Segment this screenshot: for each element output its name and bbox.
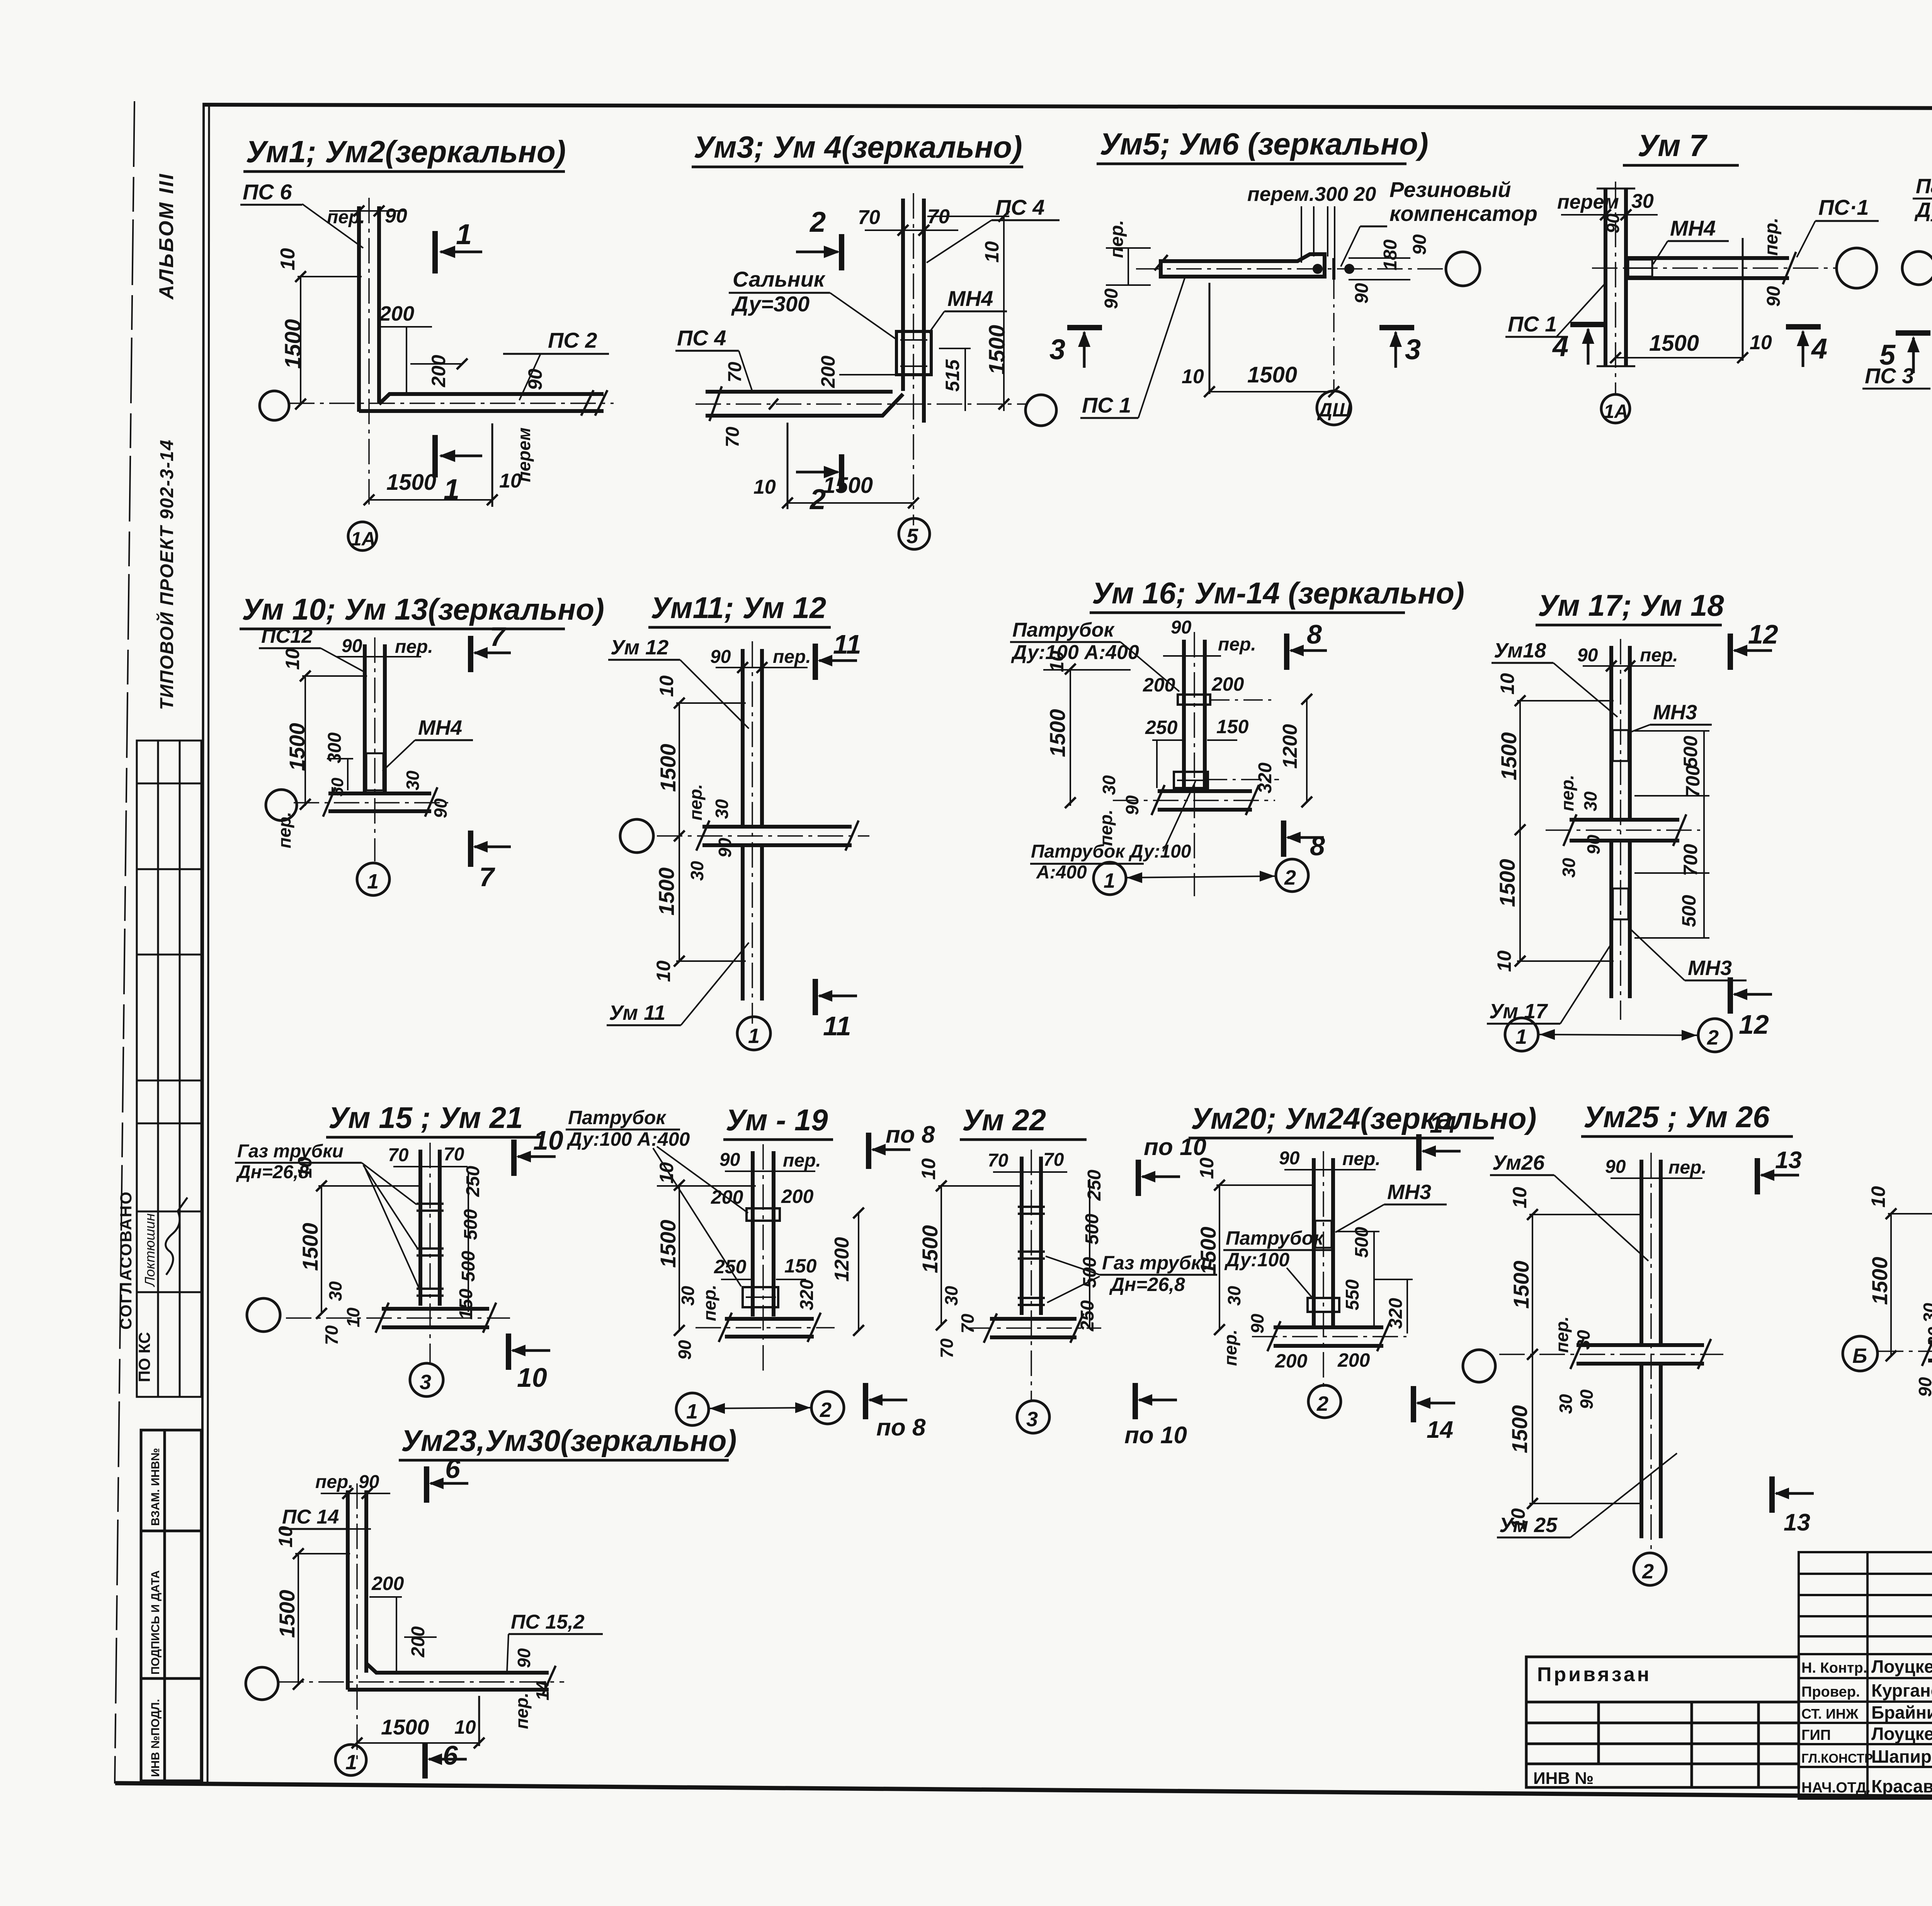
- svg-text:500: 500: [1678, 895, 1700, 927]
- wall centerline vertical: [1194, 632, 1195, 896]
- wall vertical lower: [1639, 1365, 1643, 1538]
- tick line right: [492, 423, 493, 507]
- svg-text:Лоуцкер: Лоуцкер: [1871, 1724, 1932, 1744]
- frame top line: [202, 105, 1932, 109]
- svg-text:Ду:100 А:400: Ду:100 А:400: [566, 1128, 690, 1150]
- wall centerline vertical: [1620, 639, 1621, 1020]
- section mark 12 bottom: [1728, 977, 1733, 1014]
- svg-text:90: 90: [1410, 234, 1430, 255]
- wall horizontal: [328, 792, 431, 795]
- dim 10 1500 left: [679, 1185, 680, 1330]
- dim 10 1500 left: [1070, 669, 1071, 806]
- wall centerline vertical: [356, 1483, 358, 1762]
- svg-text:1500: 1500: [1867, 1257, 1892, 1305]
- wall centerline: [1136, 268, 1444, 270]
- patrubok box: [1308, 1298, 1339, 1312]
- svg-text:МН4: МН4: [418, 716, 462, 739]
- svg-text:200: 200: [817, 355, 839, 388]
- signatures table: [1799, 1552, 1932, 1799]
- svg-text:2: 2: [1316, 1392, 1328, 1415]
- dim 1500 10 bottom: [369, 499, 492, 501]
- svg-text:70: 70: [388, 1145, 409, 1165]
- wall horizontal: [1577, 1343, 1704, 1347]
- svg-text:250: 250: [463, 1166, 483, 1197]
- svg-text:Дн=26,8: Дн=26,8: [1109, 1274, 1185, 1295]
- axis circle left: [260, 391, 289, 420]
- section mark 13 bottom: [1769, 1476, 1775, 1513]
- svg-text:90: 90: [430, 798, 451, 818]
- svg-text:А:400: А:400: [1036, 862, 1087, 883]
- svg-text:90: 90: [719, 1150, 740, 1170]
- svg-text:пер.: пер.: [1218, 634, 1256, 655]
- wall vertical: [901, 199, 905, 391]
- svg-text:90: 90: [710, 647, 731, 667]
- wall vertical: [418, 1150, 422, 1306]
- svg-text:Ум 12: Ум 12: [611, 636, 668, 659]
- wall centerline horizontal: [657, 835, 869, 837]
- wall centerline horizontal: [289, 403, 614, 404]
- svg-text:30: 30: [1631, 190, 1654, 212]
- svg-text:АЛЬБОМ III: АЛЬБОМ III: [155, 173, 178, 300]
- dim 10 1500 left: [1219, 1184, 1220, 1330]
- svg-text:пер.: пер.: [783, 1150, 821, 1171]
- wall centerline: [762, 1144, 764, 1375]
- wall centerline horizontal: [1878, 1351, 1932, 1352]
- svg-text:90: 90: [1577, 1389, 1597, 1409]
- svg-text:Патрубок: Патрубок: [1012, 619, 1115, 641]
- svg-text:14: 14: [1427, 1417, 1453, 1443]
- section mark 6 bottom: [422, 1742, 428, 1779]
- svg-text:90: 90: [1583, 834, 1604, 854]
- svg-text:70: 70: [321, 1325, 342, 1345]
- svg-text:1200: 1200: [1279, 724, 1301, 769]
- svg-text:Резиновый: Резиновый: [1389, 177, 1511, 202]
- gas tube ticks: [1018, 1206, 1045, 1208]
- svg-text:Ум 25: Ум 25: [1499, 1514, 1558, 1537]
- section mark 7 top: [468, 636, 473, 672]
- svg-text:ПС 2: ПС 2: [548, 328, 597, 352]
- svg-text:10: 10: [277, 248, 299, 270]
- svg-text:150: 150: [456, 1289, 476, 1320]
- svg-text:90: 90: [1603, 213, 1623, 233]
- axis circle 1: [1094, 862, 1126, 895]
- svg-text:10: 10: [282, 648, 303, 670]
- axis circle right: [1446, 252, 1480, 286]
- axis circle 2: [1698, 1019, 1731, 1052]
- svg-text:4: 4: [1811, 333, 1827, 365]
- axis circle left: [246, 1667, 278, 1700]
- axis circle 1: [1505, 1018, 1538, 1051]
- svg-text:30: 30: [1580, 791, 1600, 811]
- svg-text:500: 500: [458, 1251, 479, 1282]
- svg-text:2: 2: [1642, 1560, 1654, 1583]
- svg-text:30: 30: [325, 1281, 345, 1301]
- axis circle right: [1837, 248, 1877, 288]
- svg-text:Газ трубки: Газ трубки: [237, 1141, 344, 1162]
- svg-text:1500: 1500: [918, 1225, 942, 1273]
- MN4 hatch: [1628, 260, 1652, 277]
- wall centerline: [1031, 1150, 1032, 1401]
- section mark 5 left: [1896, 330, 1930, 336]
- axis circle 1: [335, 1745, 366, 1775]
- svg-text:ПС 1: ПС 1: [1082, 393, 1131, 417]
- wall centerline: [1323, 1151, 1324, 1391]
- wall centerline vertical: [429, 1143, 431, 1364]
- svg-text:Патрубок: Патрубок: [1916, 175, 1932, 198]
- svg-text:МН3: МН3: [1688, 956, 1732, 980]
- svg-text:ПС12: ПС12: [261, 625, 313, 647]
- svg-text:320: 320: [797, 1279, 817, 1310]
- svg-text:пер.: пер.: [773, 647, 811, 667]
- svg-text:90: 90: [1279, 1148, 1300, 1169]
- section mark 14 bottom: [1411, 1386, 1416, 1422]
- axis circle left: [1463, 1350, 1495, 1382]
- wall horizontal: [379, 394, 604, 404]
- dim 10 1500 bottom: [787, 502, 913, 504]
- svg-text:Патрубок: Патрубок: [568, 1107, 667, 1128]
- svg-text:5: 5: [906, 525, 918, 548]
- section mark 7 bottom: [468, 831, 473, 867]
- svg-text:90: 90: [1101, 288, 1122, 309]
- section mark po8 top: [866, 1133, 871, 1169]
- section mark 10 bottom: [506, 1334, 511, 1370]
- svg-text:90: 90: [1247, 1313, 1267, 1334]
- axis circle 3: [410, 1363, 443, 1396]
- svg-text:8: 8: [1307, 619, 1322, 649]
- axis circle 2: [811, 1391, 844, 1424]
- wall centerline horizontal: [1113, 800, 1275, 801]
- svg-text:30: 30: [1224, 1286, 1244, 1306]
- svg-text:500: 500: [461, 1209, 481, 1240]
- wall vertical: [357, 206, 361, 412]
- tick line left: [787, 423, 789, 509]
- section mark po10 top: [1136, 1160, 1141, 1196]
- axis circle 2: [1634, 1553, 1666, 1585]
- axis circle B: [1843, 1336, 1878, 1371]
- svg-text:1200: 1200: [831, 1237, 853, 1282]
- svg-text:200: 200: [1337, 1349, 1370, 1371]
- svg-text:Ду:100 А:400: Ду:100 А:400: [1011, 641, 1139, 664]
- wall horizontal: [725, 1317, 814, 1321]
- svg-text:90: 90: [342, 636, 362, 656]
- svg-text:Курганова: Курганова: [1871, 1680, 1932, 1700]
- svg-text:70: 70: [723, 426, 743, 447]
- wall centerline horizontal: [294, 802, 448, 804]
- svg-text:СОГЛАСОВАНО: СОГЛАСОВАНО: [117, 1191, 135, 1330]
- svg-text:пер.: пер.: [1761, 217, 1782, 256]
- section mark 4 right: [1786, 324, 1821, 330]
- svg-text:пер.: пер.: [1096, 809, 1116, 846]
- section mark 4 left: [1570, 322, 1605, 327]
- wall horizontal: [1626, 256, 1789, 260]
- svg-text:30: 30: [1920, 1303, 1932, 1323]
- svg-text:70: 70: [957, 1313, 978, 1334]
- svg-text:пер.: пер.: [1557, 775, 1577, 811]
- svg-text:70: 70: [725, 362, 745, 382]
- axis circle left: [1902, 251, 1932, 285]
- svg-text:Ум18: Ум18: [1494, 639, 1546, 662]
- svg-text:14: 14: [1430, 1111, 1456, 1138]
- svg-text:2: 2: [809, 206, 826, 238]
- svg-text:Б: Б: [1852, 1344, 1867, 1367]
- svg-text:30: 30: [1559, 858, 1579, 878]
- svg-text:1500: 1500: [281, 319, 306, 369]
- svg-text:Провер.: Провер.: [1801, 1684, 1860, 1700]
- svg-text:ПС·1: ПС·1: [1818, 195, 1869, 219]
- svg-text:1500: 1500: [1649, 331, 1699, 356]
- wall vertical: [1182, 640, 1186, 788]
- svg-text:1500: 1500: [386, 470, 436, 495]
- wall centerline vertical: [374, 637, 376, 861]
- wall centerline horizontal: [1592, 267, 1836, 269]
- svg-text:14: 14: [532, 1681, 553, 1700]
- svg-text:Локтюшин: Локтюшин: [142, 1213, 158, 1287]
- svg-text:90: 90: [385, 205, 407, 227]
- svg-text:ИНВ №ПОДЛ.: ИНВ №ПОДЛ.: [149, 1699, 162, 1777]
- svg-text:90: 90: [1171, 617, 1192, 638]
- svg-text:перем.300 20: перем.300 20: [1247, 183, 1376, 206]
- wall centerline horizontal: [966, 1327, 1101, 1329]
- svg-text:200: 200: [781, 1186, 814, 1207]
- svg-text:Ум 22: Ум 22: [962, 1103, 1046, 1137]
- svg-text:10: 10: [656, 675, 677, 697]
- svg-text:ПС 6: ПС 6: [243, 180, 292, 204]
- wall centerline vertical: [1615, 182, 1616, 394]
- svg-text:Ум25 ; Ум 26: Ум25 ; Ум 26: [1583, 1100, 1770, 1134]
- svg-text:90: 90: [1352, 283, 1372, 304]
- svg-text:ДШ: ДШ: [1317, 399, 1352, 421]
- wall centerline horizontal: [1252, 1336, 1406, 1337]
- svg-text:ТИПОВОЙ ПРОЕКТ 902-3-14: ТИПОВОЙ ПРОЕКТ 902-3-14: [156, 439, 177, 710]
- svg-text:10: 10: [517, 1362, 547, 1393]
- svg-text:200: 200: [1143, 674, 1175, 696]
- dim 10 1500 left: [321, 1185, 322, 1313]
- svg-text:ПС 14: ПС 14: [282, 1506, 339, 1528]
- svg-text:1: 1: [748, 1024, 760, 1048]
- svg-text:ИНВ №: ИНВ №: [1533, 1769, 1594, 1788]
- svg-text:Брайнина: Брайнина: [1871, 1702, 1932, 1723]
- axis circle 2: [1308, 1385, 1341, 1418]
- wall centerline vertical: [368, 198, 370, 507]
- axis circle 1: [676, 1393, 709, 1425]
- svg-text:515: 515: [942, 359, 963, 392]
- svg-text:пер.: пер.: [685, 784, 706, 820]
- svg-text:пер.: пер.: [1668, 1157, 1707, 1178]
- svg-text:3: 3: [420, 1371, 431, 1394]
- svg-text:ПО КС: ПО КС: [135, 1332, 153, 1382]
- svg-text:150: 150: [784, 1255, 817, 1277]
- axis circle 1A: [1601, 394, 1630, 423]
- svg-text:СТ. ИНЖ: СТ. ИНЖ: [1801, 1706, 1859, 1722]
- svg-text:200: 200: [428, 355, 449, 387]
- svg-text:ПС 15,2: ПС 15,2: [511, 1611, 585, 1633]
- axis circle 2: [1276, 859, 1308, 892]
- svg-text:Ум26: Ум26: [1492, 1151, 1545, 1174]
- axis circle right: [1026, 395, 1056, 426]
- svg-text:320: 320: [1386, 1298, 1406, 1329]
- svg-text:пер.: пер.: [1342, 1149, 1381, 1169]
- svg-text:МН4: МН4: [947, 286, 993, 311]
- section mark 11 bottom: [813, 979, 818, 1015]
- left sidebar: [117, 173, 201, 1781]
- wall centerline horizontal: [278, 1681, 564, 1683]
- svg-text:13: 13: [1784, 1509, 1810, 1536]
- section mark 13 top: [1755, 1158, 1760, 1194]
- svg-text:1500: 1500: [985, 325, 1010, 375]
- svg-text:200: 200: [371, 1573, 404, 1594]
- svg-text:Ум11; Ум 12: Ум11; Ум 12: [651, 591, 826, 625]
- svg-text:1500: 1500: [298, 1223, 322, 1271]
- signature roles: [1801, 1660, 1873, 1796]
- svg-text:250: 250: [1077, 1300, 1098, 1332]
- svg-text:Ду:250 А:500: Ду:250 А:500: [1914, 199, 1932, 222]
- svg-text:180: 180: [1380, 240, 1401, 270]
- svg-text:1500: 1500: [656, 1220, 680, 1268]
- section mark 10 top: [511, 1140, 517, 1176]
- svg-text:90: 90: [524, 369, 546, 390]
- svg-text:10: 10: [753, 476, 776, 498]
- svg-text:Шапиро: Шапиро: [1871, 1746, 1932, 1767]
- wall centerline vertical: [913, 193, 914, 525]
- svg-text:1500: 1500: [1497, 732, 1521, 780]
- svg-text:30: 30: [1556, 1394, 1576, 1414]
- svg-text:30: 30: [403, 770, 423, 790]
- axis connector: [1126, 876, 1276, 878]
- svg-text:70: 70: [988, 1150, 1009, 1171]
- svg-text:90: 90: [715, 837, 735, 858]
- svg-text:Ум1; Ум2(зеркально): Ум1; Ум2(зеркально): [246, 134, 566, 169]
- svg-text:ГИП: ГИП: [1801, 1727, 1831, 1743]
- MN3 hatch upper: [1613, 730, 1628, 761]
- dim 10 1500 left: [1890, 1213, 1892, 1356]
- svg-text:12: 12: [1748, 619, 1778, 649]
- svg-text:пер.: пер.: [1640, 645, 1678, 666]
- svg-text:по 8: по 8: [876, 1414, 926, 1441]
- svg-text:пер.: пер.: [699, 1284, 719, 1321]
- svg-text:1500: 1500: [285, 723, 309, 771]
- svg-text:Ум 17; Ум 18: Ум 17; Ум 18: [1538, 588, 1724, 622]
- svg-text:1: 1: [1515, 1025, 1527, 1048]
- svg-text:500: 500: [1082, 1214, 1102, 1245]
- section mark 12 top: [1728, 634, 1733, 670]
- svg-text:Ду:100: Ду:100: [1224, 1249, 1289, 1271]
- svg-text:70: 70: [444, 1144, 464, 1165]
- wall vertical: [1604, 189, 1607, 366]
- svg-text:по 8: по 8: [886, 1121, 935, 1148]
- svg-text:10: 10: [275, 1526, 296, 1548]
- wall vertical upper: [1639, 1160, 1643, 1344]
- svg-text:30: 30: [712, 799, 732, 819]
- svg-text:Сальник: Сальник: [733, 267, 826, 291]
- svg-text:700: 700: [1680, 844, 1701, 876]
- svg-text:3: 3: [1026, 1408, 1038, 1431]
- wall horizontal: [1161, 254, 1325, 277]
- svg-text:Красавин: Красавин: [1871, 1776, 1932, 1796]
- svg-text:6: 6: [443, 1740, 458, 1770]
- wall vertical upper: [1609, 646, 1613, 818]
- dims right 250 500 500 250: [1089, 1179, 1090, 1329]
- gland sleeve box: [896, 331, 931, 375]
- svg-text:700: 700: [1682, 765, 1704, 797]
- section mark 3 right: [1379, 325, 1414, 330]
- svg-text:10: 10: [1867, 1186, 1889, 1208]
- svg-text:70: 70: [937, 1338, 957, 1358]
- axis circle 1A: [348, 522, 377, 550]
- svg-text:11: 11: [833, 629, 861, 659]
- patrubok upper: [747, 1208, 780, 1221]
- axis circle 1: [737, 1017, 770, 1050]
- svg-text:ПОДПИСЬ И ДАТА: ПОДПИСЬ И ДАТА: [149, 1570, 162, 1675]
- svg-text:Привязан: Привязан: [1537, 1663, 1651, 1686]
- svg-text:200: 200: [408, 1626, 429, 1658]
- dims right 500 700 700 500: [1703, 730, 1705, 939]
- svg-text:10: 10: [1497, 673, 1518, 695]
- section mark 8 bottom: [1281, 820, 1286, 857]
- wall centerline horizontal: [1546, 829, 1700, 831]
- svg-text:Ум20; Ум24(зеркально): Ум20; Ум24(зеркально): [1191, 1101, 1537, 1135]
- svg-text:1500: 1500: [275, 1590, 299, 1638]
- svg-text:500: 500: [1680, 736, 1701, 768]
- wall centerline horizontal: [1499, 1354, 1723, 1355]
- svg-text:1500: 1500: [1495, 859, 1519, 907]
- wall centerline horizontal: [286, 1317, 510, 1319]
- section mark 11 top: [813, 644, 818, 680]
- svg-text:Ум 11: Ум 11: [609, 1001, 665, 1024]
- section mark 8 top: [1284, 634, 1289, 670]
- axis circle left: [247, 1298, 280, 1332]
- svg-text:10: 10: [981, 241, 1003, 263]
- svg-text:7: 7: [490, 622, 506, 652]
- wall centerline horizontal: [696, 1327, 835, 1328]
- svg-text:30: 30: [1573, 1330, 1594, 1350]
- svg-text:200: 200: [379, 302, 414, 325]
- svg-text:30: 30: [678, 1286, 698, 1306]
- compensator dots: [1313, 264, 1323, 274]
- section mark 6 top: [424, 1466, 429, 1503]
- wall vertical: [751, 1151, 755, 1317]
- wall horizontal: [1274, 1325, 1383, 1329]
- svg-text:90: 90: [1122, 795, 1142, 815]
- svg-text:Лоуцкер: Лоуцкер: [1871, 1656, 1932, 1677]
- dims left 10 1500 1500 10: [1532, 1214, 1533, 1504]
- svg-text:по 10: по 10: [1124, 1422, 1187, 1449]
- section mark po10 bottom: [1133, 1383, 1138, 1419]
- axis circle DSh: [1317, 391, 1351, 425]
- signature names: [1871, 1656, 1932, 1796]
- axis connector: [709, 1408, 811, 1408]
- svg-text:10: 10: [918, 1158, 939, 1180]
- wall horizontal: [702, 825, 852, 829]
- wall end ticks: [581, 390, 594, 416]
- svg-text:90: 90: [1915, 1377, 1932, 1397]
- wall vertical lower: [741, 847, 745, 1001]
- wall centerline horizontal: [696, 403, 1028, 405]
- svg-text:10: 10: [294, 1157, 316, 1178]
- svg-text:90: 90: [1605, 1157, 1626, 1177]
- svg-text:12: 12: [1739, 1009, 1769, 1040]
- svg-text:90: 90: [1764, 286, 1784, 307]
- svg-text:7: 7: [479, 862, 495, 892]
- svg-text:1500: 1500: [381, 1715, 429, 1739]
- svg-text:10: 10: [1196, 1157, 1218, 1179]
- svg-text:пер.: пер.: [1220, 1329, 1240, 1366]
- svg-text:1500: 1500: [1509, 1260, 1533, 1309]
- axis connector: [1539, 1035, 1698, 1035]
- MN3 hatch: [1315, 1221, 1332, 1248]
- svg-text:200: 200: [1275, 1350, 1308, 1372]
- svg-text:ПС 1: ПС 1: [1508, 312, 1557, 336]
- svg-text:1500: 1500: [823, 473, 873, 498]
